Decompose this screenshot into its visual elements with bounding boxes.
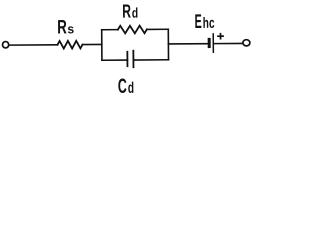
wire to battery xyxy=(168,43,208,45)
svg-text:R: R xyxy=(122,2,131,23)
svg-text:E: E xyxy=(195,11,202,33)
svg-text:d: d xyxy=(128,80,134,97)
label R_s xyxy=(57,16,74,38)
wire top-left xyxy=(102,29,118,31)
wire xyxy=(83,43,102,45)
svg-text:hc: hc xyxy=(203,15,215,32)
terminal right xyxy=(243,40,250,46)
wire bottom-right xyxy=(133,59,168,61)
wire top-right xyxy=(147,28,168,30)
terminal left xyxy=(2,42,8,48)
svg-text:d: d xyxy=(132,5,138,21)
label E_hc xyxy=(195,11,215,33)
svg-text:C: C xyxy=(118,75,127,98)
label C_d xyxy=(118,75,134,98)
svg-text:R: R xyxy=(57,16,67,38)
resistor R_d xyxy=(118,26,147,34)
label R_d xyxy=(122,1,138,22)
node: parallel box left edge xyxy=(101,30,103,60)
wire xyxy=(9,44,57,46)
capacitor C_d xyxy=(127,51,133,68)
wire bottom-left xyxy=(102,59,127,61)
polarity + xyxy=(218,34,223,39)
resistor R_s xyxy=(57,41,82,49)
svg-text:s: s xyxy=(67,21,74,36)
battery E_hc : long thin plate xyxy=(212,34,214,52)
battery E_hc : short thick plate xyxy=(208,39,211,46)
node: parallel box right edge xyxy=(167,29,169,59)
wire xyxy=(214,42,242,44)
